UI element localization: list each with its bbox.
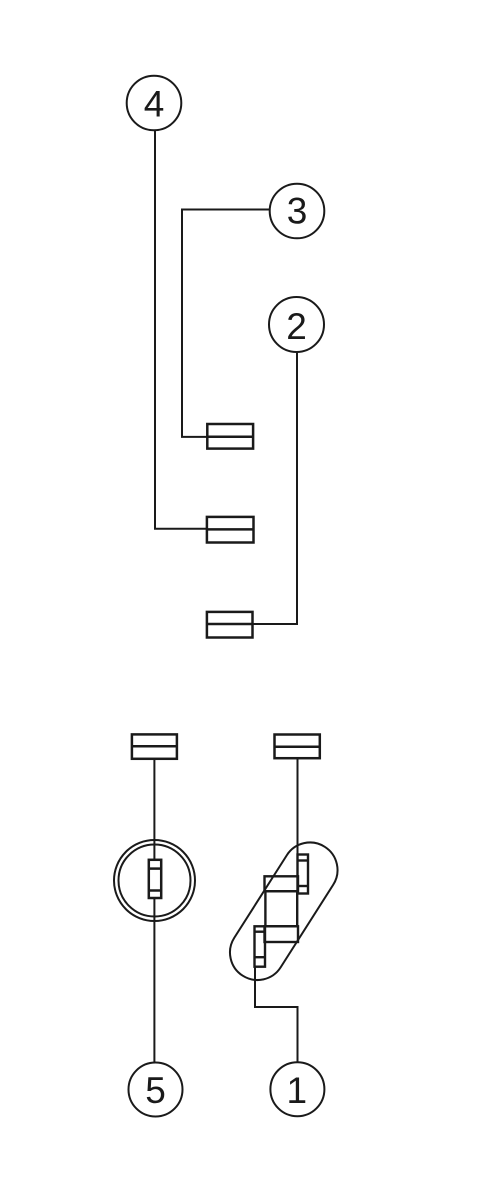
callout circle 5 bbox=[129, 1063, 183, 1117]
leader wire from 3 to top terminal bbox=[182, 210, 269, 437]
wire terminal to socket contact bbox=[297, 758, 299, 893]
wire socket to callout 1 bbox=[255, 967, 298, 1062]
socket bridge plate D bbox=[265, 926, 299, 942]
wire terminal to bulb bbox=[153, 759, 155, 860]
callout circle 2 bbox=[269, 297, 324, 352]
terminal connector (item 4) bbox=[207, 517, 254, 543]
bulb inner circle bbox=[119, 845, 191, 917]
leader wire from 4 to middle terminal bbox=[155, 131, 207, 529]
svg-text:2: 2 bbox=[286, 306, 307, 347]
callout circle 4 bbox=[127, 76, 182, 131]
svg-text:1: 1 bbox=[287, 1070, 308, 1111]
terminal block above bulb bbox=[132, 734, 177, 758]
terminal connector (item 3) bbox=[207, 424, 253, 449]
bulb outer circle bbox=[114, 840, 195, 921]
socket contact plate A (upper) bbox=[298, 855, 309, 894]
callout circle 3 bbox=[270, 184, 325, 239]
leader wire from 2 to bottom terminal bbox=[253, 353, 298, 625]
socket housing stadium outline bbox=[220, 832, 348, 990]
svg-text:5: 5 bbox=[145, 1070, 166, 1111]
svg-text:3: 3 bbox=[287, 191, 308, 232]
socket body plate C bbox=[265, 891, 297, 926]
terminal connector (item 2) bbox=[207, 612, 253, 638]
socket contact plate E (lower) bbox=[255, 926, 266, 966]
callout circle 1 bbox=[270, 1062, 324, 1116]
svg-text:4: 4 bbox=[144, 83, 165, 124]
terminal block above socket bbox=[275, 735, 320, 759]
wire bulb to callout 5 bbox=[153, 898, 155, 1063]
socket bridge plate B bbox=[265, 876, 299, 891]
bulb fuse element bbox=[149, 860, 161, 898]
